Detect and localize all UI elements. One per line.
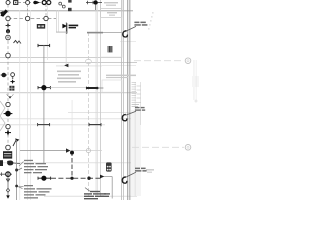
valve symbol small circles bbox=[59, 2, 62, 5]
legend box text bbox=[104, 2, 118, 16]
thermostat label box bbox=[37, 24, 45, 29]
flow arrow y150 bbox=[66, 148, 70, 152]
device circle A4 bbox=[47, 1, 51, 5]
note A leader bbox=[19, 162, 24, 167]
leader bottom center bbox=[85, 188, 90, 192]
callout 1 text bbox=[134, 22, 147, 26]
junction box square wall top bbox=[68, 8, 72, 11]
equipment schedule table bbox=[132, 83, 141, 107]
grid vertical x27 bbox=[26, 0, 29, 200]
grid vertical x30 bbox=[29, 10, 32, 200]
leader dot upper bbox=[15, 169, 18, 172]
device circle A2 bbox=[26, 1, 30, 5]
outlet capsule symbol bbox=[106, 162, 112, 171]
shaft wall pair x122 bbox=[120, 0, 123, 200]
wiring dashed second row bbox=[8, 18, 56, 20]
riser circle y104 bbox=[6, 102, 10, 106]
north arrow flag black bbox=[0, 9, 8, 16]
drop line x112 bbox=[111, 177, 113, 199]
note block lower left B bbox=[24, 185, 52, 199]
riser symbol circle x8 y37 bbox=[6, 35, 11, 40]
left edge brace zigzag bbox=[0, 101, 5, 131]
drain line y174 bbox=[0, 173, 12, 175]
callout 1 damper hook bbox=[123, 31, 128, 37]
smoke damper leader dashed right upper bbox=[134, 60, 184, 62]
wire top right segment bbox=[86, 2, 102, 4]
device circle A1 bbox=[6, 1, 10, 5]
hatched detail box x108 bbox=[108, 46, 113, 52]
grid vertical x20 bbox=[18, 10, 21, 200]
ceiling grid text line bbox=[106, 75, 136, 79]
tick cross 2 bbox=[92, 1, 94, 5]
tag circle right lower bbox=[185, 145, 191, 151]
stud wall pair x96 bbox=[95, 3, 98, 197]
wall line y118 bbox=[0, 117, 137, 120]
duct run vertical x44 bbox=[43, 46, 45, 164]
grid vertical x47 bbox=[46, 2, 49, 60]
wall line y112 bbox=[68, 111, 137, 114]
wiring dashed vertical x46 bbox=[45, 5, 47, 17]
drain vertical bbox=[7, 177, 9, 196]
wiring dashed top row bbox=[8, 2, 50, 4]
center line x88 dashed bbox=[88, 32, 90, 196]
callout 2 leader bbox=[126, 111, 136, 115]
junction node arrow bbox=[33, 1, 37, 5]
diagonal reference dots top right bbox=[148, 12, 154, 30]
waste line y178 bbox=[51, 177, 102, 179]
callout 1 leader bbox=[125, 26, 136, 31]
wall line y196 bbox=[44, 195, 137, 198]
wall line y124 light bbox=[0, 123, 105, 126]
riser dashed line x8 bbox=[7, 5, 9, 148]
note B leader bbox=[19, 185, 24, 187]
riser circle y147 bbox=[6, 145, 11, 150]
tiny circle right mid bbox=[195, 100, 197, 102]
wall segment y32 right dark bbox=[87, 32, 103, 34]
check hook symbol bbox=[7, 160, 13, 165]
device circle B3 bbox=[44, 16, 48, 20]
funnel triangle bbox=[6, 179, 9, 182]
cleanout node circled cross bbox=[6, 172, 11, 177]
tag circle right upper bbox=[185, 58, 191, 64]
device circle B1 bbox=[6, 16, 10, 20]
damper node y87 bbox=[38, 87, 50, 89]
callout 2 damper hook bbox=[122, 114, 127, 120]
junction box square top edge bbox=[68, 0, 71, 3]
revision text right lower bbox=[146, 169, 154, 173]
diamond fitting bbox=[6, 188, 9, 192]
up pennant bbox=[13, 140, 16, 146]
fire damper pennant bbox=[62, 24, 67, 29]
node dot y178 x89 bbox=[87, 177, 90, 180]
access panel grid square bbox=[9, 86, 14, 91]
callout 3 text bbox=[135, 168, 147, 172]
riser symbol circle x8 y55 bbox=[6, 53, 11, 58]
note block lower left A bbox=[24, 160, 48, 174]
star fitting y25 bbox=[7, 23, 9, 28]
leader dot lower bbox=[15, 185, 18, 188]
wall line y65 bbox=[56, 65, 102, 68]
cleanout node y178 bbox=[41, 176, 46, 181]
junction box square bbox=[14, 1, 18, 5]
wall segment y32 left bbox=[56, 31, 68, 34]
shaft wall pair x128 dark bbox=[126, 0, 129, 200]
exhaust fan half disc bbox=[6, 94, 13, 99]
wall line y57 bbox=[0, 57, 122, 58]
pipe run y88 center bbox=[85, 87, 87, 90]
direction chevrons bbox=[14, 41, 18, 44]
shaft column light x131-141 bbox=[131, 110, 141, 196]
note text bottom center bbox=[84, 191, 110, 200]
duct vertical x72 light bbox=[71, 100, 74, 150]
star fitting bbox=[12, 79, 14, 84]
junction node filled top right bbox=[93, 0, 97, 4]
junction dot y178 x72 bbox=[70, 177, 73, 180]
smoke damper leader dashed right lower bbox=[132, 146, 184, 148]
stud wall pair x56 bbox=[55, 10, 58, 32]
inline fitting circle y61 bbox=[85, 59, 91, 63]
equipment tag striped box bbox=[3, 151, 12, 158]
callout 2 text bbox=[135, 107, 145, 111]
duct tee top bbox=[38, 45, 50, 47]
column line right x194 bbox=[193, 60, 196, 100]
condensate line y150 bbox=[20, 150, 66, 152]
tick cross 1 bbox=[87, 1, 89, 5]
supply diffuser filled bbox=[2, 73, 7, 78]
pipe run y124 center bbox=[89, 124, 101, 126]
riser circle y126 bbox=[6, 124, 10, 128]
valve node y31 bbox=[6, 29, 10, 33]
wall line top horizontal bbox=[0, 10, 133, 11]
device circle A3 bbox=[42, 1, 46, 5]
star fitting y132 bbox=[7, 129, 9, 135]
note text block center bbox=[57, 71, 81, 83]
flow arrowhead down bbox=[6, 195, 10, 198]
duct end bar y124 bbox=[38, 124, 50, 126]
callout 3 leader bbox=[125, 172, 136, 178]
branch dashed vertical x72 bbox=[71, 152, 73, 179]
legend box top bbox=[101, 0, 122, 57]
end arrow y176 x101 bbox=[100, 175, 104, 179]
wall vertical x66 bbox=[65, 22, 68, 34]
junction ball with wings bbox=[5, 111, 11, 117]
wall line y62 bbox=[0, 62, 137, 63]
device circle B2 bbox=[25, 16, 29, 20]
edge block bbox=[0, 160, 3, 166]
wiring dashed vertical x27 bbox=[27, 5, 29, 17]
wall line y92 bbox=[0, 92, 137, 93]
room outline light box bbox=[102, 80, 122, 92]
return grille circle bbox=[11, 73, 15, 77]
fire damper label text bbox=[69, 25, 79, 29]
inline fitting circle y150 bbox=[86, 149, 90, 153]
wall vertical x100 bbox=[99, 0, 102, 197]
pipe run y88 light middle bbox=[50, 87, 86, 89]
branch node dot bbox=[70, 151, 74, 155]
riser line x16 bbox=[15, 140, 18, 200]
flow arrow y65 bbox=[64, 64, 68, 68]
callout 3 damper hook bbox=[122, 177, 127, 183]
wall line y162 bbox=[0, 161, 137, 164]
